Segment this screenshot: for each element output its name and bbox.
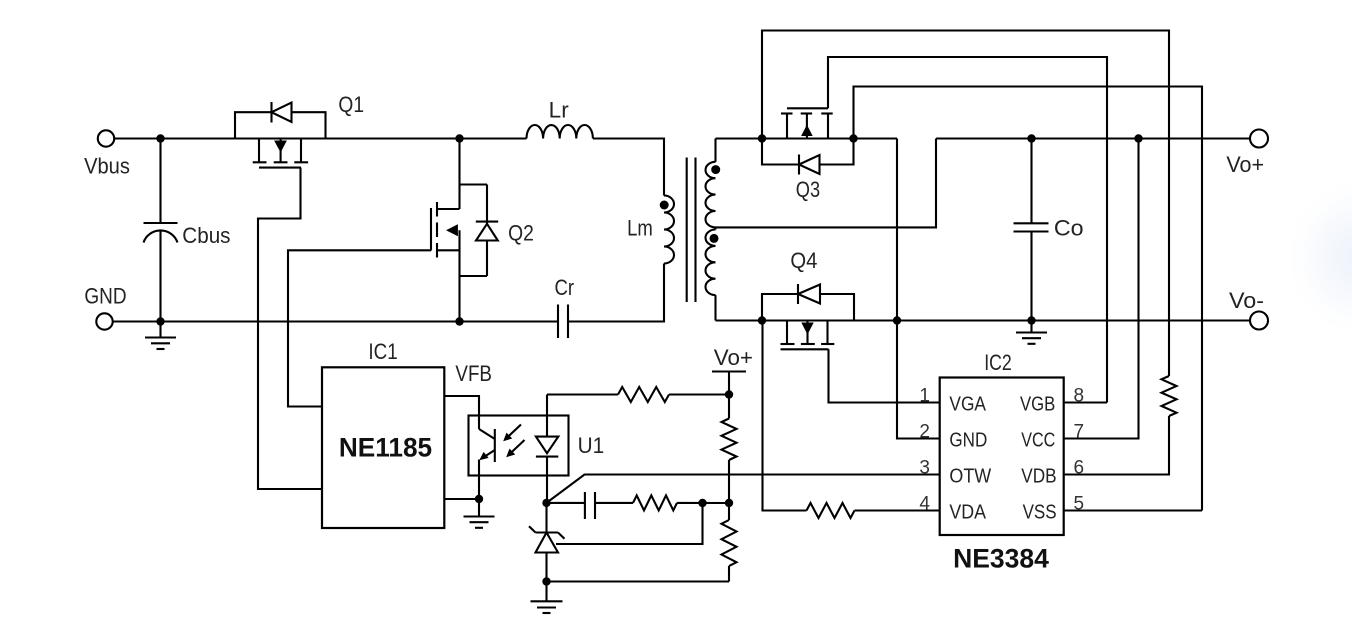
- svg-text:Q4: Q4: [790, 248, 817, 273]
- wire IC1 lower right pin: [444, 498, 479, 500]
- svg-text:Q3: Q3: [796, 177, 820, 202]
- wire Q2 gate to IC1: [288, 250, 431, 406]
- svg-text:VCC: VCC: [1021, 429, 1055, 451]
- wire IC2 pin8 VGB: [1063, 401, 1107, 403]
- resistor compensation: [633, 495, 729, 510]
- optocoupler U1 box: [469, 416, 605, 476]
- transformer secondary winding lower: [706, 227, 716, 320]
- capacitor Co: [1014, 139, 1084, 321]
- svg-text:Co: Co: [1054, 216, 1084, 241]
- junction node compensation: [542, 499, 550, 507]
- ground symbol (opto): [464, 499, 495, 528]
- terminal GND: [84, 284, 126, 330]
- polarity dot secondary upper: [711, 165, 720, 174]
- junction node Co top: [1027, 134, 1035, 142]
- svg-text:VGB: VGB: [1020, 393, 1055, 415]
- junction node Co bottom: [1027, 316, 1035, 324]
- pin labels IC2 left: [949, 393, 991, 523]
- svg-text:VFB: VFB: [455, 361, 492, 386]
- svg-text:IC1: IC1: [368, 339, 397, 364]
- wire divider bottom to zener: [547, 580, 730, 582]
- wire Q4 left node to VDA resistor: [763, 321, 807, 511]
- wire center tap to Vo+ rail: [716, 139, 937, 228]
- wire Q4 gate to IC2 VGA: [829, 349, 941, 402]
- pin numbers IC2 right: [1074, 386, 1085, 515]
- svg-text:Q1: Q1: [338, 92, 364, 117]
- zener/shunt reference TL431: [529, 503, 565, 582]
- resistor R VDB: [1162, 376, 1177, 416]
- svg-text:7: 7: [1074, 422, 1085, 443]
- capacitor compensation: [547, 492, 634, 519]
- wire Lm to Cr: [568, 264, 664, 322]
- svg-text:Vbus: Vbus: [84, 153, 130, 178]
- pin numbers IC2 left: [919, 386, 930, 515]
- wire OTW from IC2 pin3: [547, 475, 941, 503]
- wire secondary top to Q3: [716, 137, 898, 139]
- polarity dot Lm: [660, 201, 669, 210]
- body diode of Q2: [460, 185, 499, 277]
- polarity dot secondary lower: [710, 234, 719, 243]
- terminal Vo+: [1226, 130, 1268, 178]
- optocoupler U1 LED: [536, 395, 558, 503]
- wire GND rail: [113, 320, 558, 322]
- svg-text:VSS: VSS: [1023, 501, 1057, 523]
- junction node divider top: [725, 390, 733, 398]
- body diode of Q1: [235, 102, 326, 139]
- junction node VCC tap: [1134, 134, 1142, 142]
- optocoupler U1 phototransistor: [479, 429, 495, 499]
- transformer core: [687, 158, 696, 303]
- resistor divider lower: [722, 503, 737, 582]
- wire zener ref tap: [556, 503, 703, 544]
- svg-text:Vo-: Vo-: [1229, 288, 1264, 313]
- junction node Q3 right: [849, 134, 857, 142]
- svg-text:GND: GND: [949, 429, 987, 451]
- inductor Lr: [527, 97, 593, 138]
- body diode of Q4: [762, 284, 854, 321]
- wire Vo+ rail: [936, 137, 1250, 139]
- node Vo+ sense tap: [712, 345, 753, 394]
- junction node Q4 left: [758, 316, 766, 324]
- svg-text:IC2: IC2: [984, 350, 1012, 375]
- op-amp IC2 NE3384 box: [940, 350, 1064, 574]
- junction node divider mid: [725, 499, 733, 507]
- svg-text:NE3384: NE3384: [953, 543, 1049, 573]
- optocoupler U1 light arrows: [503, 425, 524, 458]
- terminal Vbus: [84, 130, 130, 178]
- wire Q3 gate to VGB bus: [828, 57, 1107, 403]
- wire Vbus rail: [114, 137, 526, 139]
- junction node Q4 right: [893, 316, 901, 324]
- wire IC1 VFB to optocoupler: [444, 396, 479, 429]
- transistor Q1 (P-MOSFET pass switch): [253, 92, 364, 168]
- svg-text:Vo+: Vo+: [714, 345, 753, 370]
- wire VCC to IC2 pin7: [1063, 139, 1139, 439]
- svg-text:U1: U1: [578, 433, 605, 458]
- ground symbol (zener): [531, 582, 563, 614]
- resistor feedback upper: [618, 387, 669, 402]
- wire Q1 gate to IC1: [258, 168, 322, 489]
- svg-text:1: 1: [919, 386, 930, 407]
- junction node GND/Cbus: [156, 317, 164, 325]
- svg-text:VDB: VDB: [1021, 465, 1056, 487]
- inductor Lm: [627, 196, 674, 264]
- svg-text:VGA: VGA: [949, 393, 986, 415]
- svg-text:GND: GND: [84, 284, 126, 309]
- junction node zener anode: [542, 577, 550, 585]
- svg-text:2: 2: [919, 422, 930, 443]
- svg-text:Lr: Lr: [549, 97, 569, 122]
- pin labels IC2 right: [1020, 393, 1057, 523]
- junction node Q2 drain: [455, 134, 463, 142]
- junction node zener ref: [698, 499, 706, 507]
- transistor Q4 (sync rectifier, gate below): [781, 248, 835, 349]
- wire Q3 right to bottom rail / IC2 GND (pin2): [897, 139, 941, 439]
- wire Q3 source bus (VSS): [854, 87, 1203, 511]
- wire feedback top: [547, 393, 618, 395]
- svg-text:Cbus: Cbus: [182, 223, 230, 248]
- wire Lr to Lm: [593, 139, 664, 196]
- svg-text:Q2: Q2: [508, 221, 534, 246]
- svg-text:Lm: Lm: [627, 216, 653, 241]
- svg-text:Cr: Cr: [555, 275, 575, 300]
- transistor Q3 (sync rectifier, gate above): [781, 108, 833, 202]
- junction node Vbus/Cbus: [156, 134, 164, 142]
- transistor Q2 (N-MOSFET): [431, 139, 534, 322]
- ground symbol (output): [1016, 321, 1047, 344]
- ground symbol (input): [145, 322, 176, 350]
- wire IC2 pin6 VDB: [1063, 416, 1169, 475]
- body diode of Q3: [762, 139, 854, 175]
- junction node opto emitter / IC1: [475, 495, 483, 503]
- junction node Q3 left: [758, 134, 766, 142]
- svg-text:VDA: VDA: [949, 501, 986, 523]
- svg-text:Vo+: Vo+: [1226, 152, 1264, 177]
- wire Q3 drain sense bus (VDB): [762, 31, 1169, 377]
- resistor R VDA: [807, 503, 941, 518]
- svg-text:OTW: OTW: [949, 465, 991, 487]
- wire secondary bottom rail: [716, 319, 1251, 321]
- transformer secondary winding upper: [706, 139, 716, 228]
- wire IC2 pin5 VSS: [1063, 509, 1202, 511]
- svg-text:NE1185: NE1185: [339, 433, 432, 463]
- capacitor Cr: [555, 275, 575, 338]
- op-amp IC1 NE1185 box: [322, 339, 444, 528]
- capacitor Cbus: [144, 139, 231, 322]
- terminal Vo-: [1229, 288, 1268, 330]
- junction node Q2 source: [455, 317, 463, 325]
- resistor divider upper: [722, 395, 737, 504]
